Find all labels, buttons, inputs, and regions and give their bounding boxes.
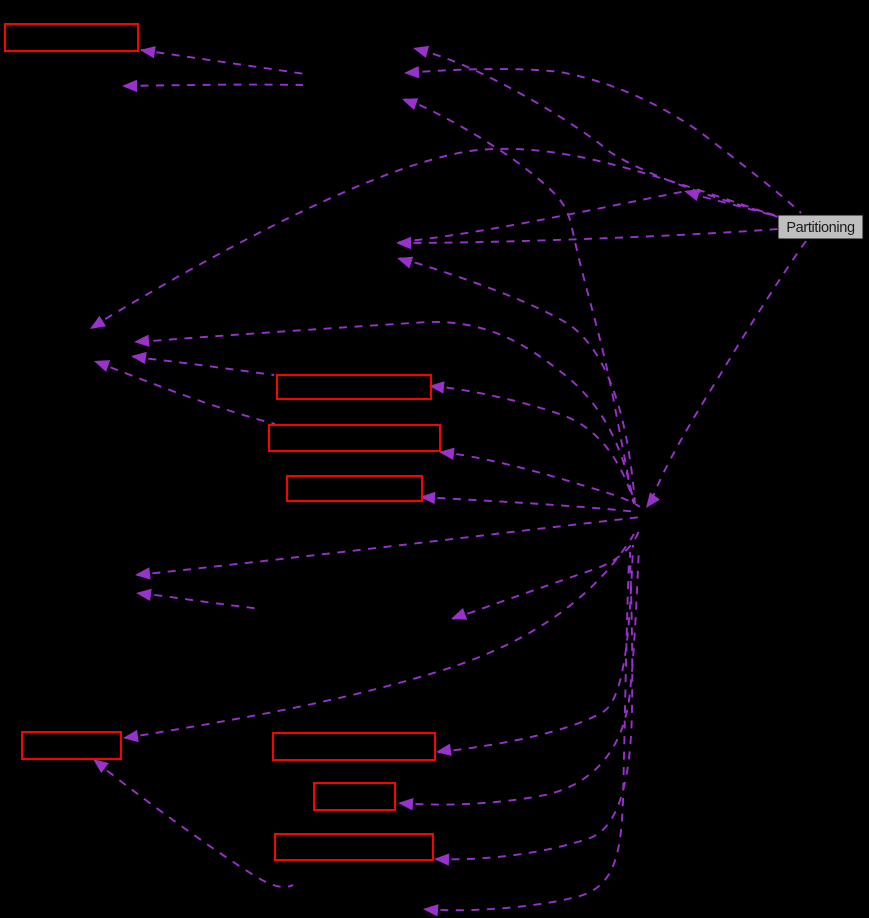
box D red node — [287, 476, 422, 501]
arrowhead into box B — [428, 380, 444, 394]
wire edge hub to node T3 — [405, 99, 633, 502]
box H red node — [275, 834, 433, 860]
wire edge hub to node T11 — [453, 528, 640, 619]
wire edge stub to node T9 — [139, 593, 262, 609]
wire edge box B to node T6 — [133, 357, 274, 375]
box F red node — [273, 733, 435, 760]
arrowhead into node T9 — [135, 587, 151, 601]
wire edge hub to box C — [441, 452, 640, 507]
arrowhead into node T10 — [422, 903, 438, 917]
svg-text:Partitioning: Partitioning — [786, 220, 855, 236]
wire edge Partitioning to node A1 — [398, 229, 778, 243]
wire edge hub to node A2 — [400, 258, 635, 503]
wire edge hub to node T8 — [137, 517, 641, 575]
wire edge hub to node T10 — [425, 558, 629, 910]
wire edge Partitioning to node g — [688, 193, 779, 217]
arrowhead into node T2 — [404, 66, 420, 79]
wire edge Partitioning to node T4 — [92, 149, 778, 327]
arrowhead into box E bottom corner — [89, 754, 108, 773]
wire edge to box E bottom corner — [95, 761, 293, 887]
arrowhead into node T4 — [87, 316, 106, 334]
wire edge hub to box F — [438, 545, 633, 752]
wire edge node g to node A1 — [399, 191, 686, 242]
box E red node bottom-left — [22, 732, 121, 759]
wire edge hub to box G — [400, 548, 639, 805]
box C red node — [269, 425, 440, 451]
wire edge Partitioning to hub node — [651, 241, 806, 502]
arrowhead into node g — [682, 185, 700, 201]
arrowhead into box H — [434, 853, 449, 866]
arrowhead into node T12 — [122, 80, 137, 92]
arrowhead into node T8 — [134, 567, 150, 581]
wire edge hub to box D — [422, 497, 638, 512]
box A red node top-left — [5, 24, 138, 51]
wire edge box C to node T7 — [96, 362, 275, 424]
arrowhead into box D — [420, 491, 436, 504]
wire edge hub to box E right — [125, 534, 634, 738]
arrowhead into box C — [438, 446, 454, 460]
arrowhead into node T1 — [411, 42, 429, 58]
wire edge Partitioning to node T1 — [418, 50, 778, 216]
arrowhead into node T3 — [400, 93, 418, 110]
wire edge node N1 to box A — [141, 50, 305, 74]
node Partitioning gray box — [778, 215, 863, 239]
wire edge hub to node T5 — [138, 322, 634, 504]
arrowhead into node A2 — [395, 252, 413, 268]
box B red node — [277, 375, 431, 399]
arrowhead into box A — [139, 44, 156, 58]
wire edge node N1 to node T12 — [125, 85, 303, 86]
arrowhead into node T6 — [130, 350, 147, 364]
wire edge hub to box B — [431, 386, 634, 503]
arrowhead into node T5 — [133, 335, 149, 349]
arrowhead into hub node — [641, 492, 660, 511]
arrowhead into node T7 — [92, 355, 110, 372]
wire edge Partitioning to node T2 — [407, 69, 801, 213]
wire edge hub to box H — [436, 552, 632, 859]
arrowhead into node A1 — [396, 237, 411, 249]
arrowhead into node T11 — [449, 608, 467, 625]
box G red node — [314, 783, 395, 810]
arrowhead into box F — [435, 744, 452, 758]
arrowhead into box E right — [122, 730, 138, 744]
arrowhead into box G — [398, 797, 414, 811]
